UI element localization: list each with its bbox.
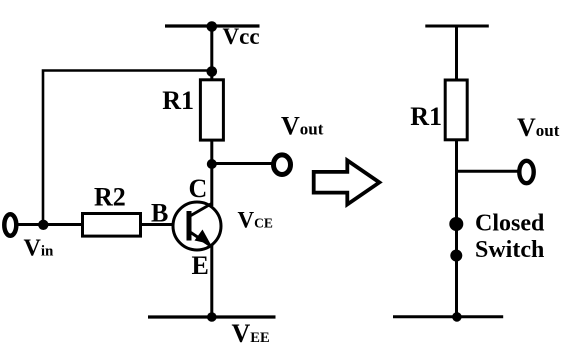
svg-text:E: E (192, 251, 209, 280)
svg-text:C: C (189, 174, 208, 203)
svg-text:R1: R1 (410, 102, 442, 131)
svg-text:R1: R1 (162, 86, 194, 115)
svg-text:Switch: Switch (475, 237, 544, 263)
svg-text:Closed: Closed (475, 211, 545, 237)
svg-text:Vcc: Vcc (223, 24, 260, 49)
svg-text:B: B (151, 199, 168, 228)
svg-text:R2: R2 (94, 183, 126, 212)
